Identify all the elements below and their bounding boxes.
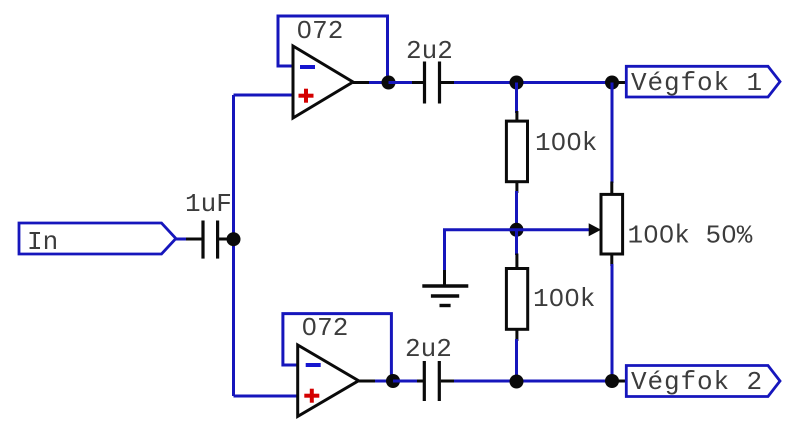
wire In tag to capacitor (176, 238, 202, 241)
junction bottom rail R2 (510, 375, 524, 389)
junction input bus (227, 232, 241, 246)
junction top rail pot (605, 76, 619, 90)
wire U2 output (359, 380, 394, 383)
wire U1 output (353, 81, 390, 84)
label 072 (U1) (297, 16, 344, 46)
wire mid rail to ground (445, 230, 517, 272)
svg-text:2u2: 2u2 (406, 36, 453, 66)
svg-text:Végfok 2: Végfok 2 (631, 367, 763, 397)
wire mid junction to R2 (515, 230, 518, 269)
wire op-amp U2 +input (234, 395, 298, 398)
wire bottom rail (454, 380, 613, 383)
op-amp U1 (293, 46, 353, 118)
junction U1 output (382, 76, 396, 90)
junction mid rail (510, 223, 524, 237)
wire mid rail to potentiometer wiper (517, 228, 590, 231)
label 2u2 bottom (405, 334, 452, 364)
label 1uF (185, 189, 232, 219)
capacitor 1uF (203, 221, 228, 259)
svg-text:100k 50%: 100k 50% (628, 221, 753, 251)
wire op-amp U1 feedback loop (278, 16, 388, 83)
node Vegfok 1 tag (626, 66, 780, 98)
wire potentiometer to bottom rail (610, 254, 613, 381)
node In tag (19, 223, 176, 257)
junction top rail R1 (510, 76, 524, 90)
resistor R1 100k (506, 121, 527, 182)
op-amp U2 (298, 345, 359, 416)
wire U1 output to capacitor 2u2 (389, 81, 424, 84)
wire junction to Vegfok1 tag (612, 81, 626, 84)
node Vegfok 2 tag (626, 366, 780, 398)
svg-text:In: In (27, 227, 58, 257)
potentiometer 100k 50% (601, 194, 623, 254)
label 100k (R1) (535, 128, 597, 158)
svg-text:2u2: 2u2 (405, 334, 452, 364)
wire top rail to potentiometer (610, 83, 613, 196)
wire input bus vertical (232, 95, 235, 396)
junction U2 output (386, 374, 400, 388)
svg-text:100k: 100k (533, 284, 595, 314)
label 100k 50% (628, 221, 753, 251)
wire R2 to bottom rail (515, 329, 518, 382)
label 072 (U2) (302, 313, 349, 343)
wire top rail (454, 81, 613, 84)
resistor R2 100k (506, 269, 527, 330)
wire op-amp U2 feedback loop (283, 314, 392, 381)
label 2u2 top (406, 36, 453, 66)
label 100k (R2) (533, 284, 595, 314)
wire U2 output to capacitor 2u2 bottom (393, 380, 423, 383)
junction bottom rail pot (605, 374, 619, 388)
wire R1 to mid junction (515, 182, 518, 230)
wire top rail to R1 (515, 83, 518, 123)
svg-text:Végfok 1: Végfok 1 (631, 68, 763, 98)
wire junction to Vegfok2 tag (612, 380, 626, 383)
wire op-amp U1 +input (234, 94, 294, 97)
svg-text:1uF: 1uF (185, 189, 232, 219)
svg-text:100k: 100k (535, 128, 597, 158)
potentiometer wiper arrow (589, 223, 601, 236)
ground (422, 270, 468, 306)
capacitor 2u2 bottom (424, 361, 455, 401)
capacitor 2u2 top (425, 62, 456, 104)
